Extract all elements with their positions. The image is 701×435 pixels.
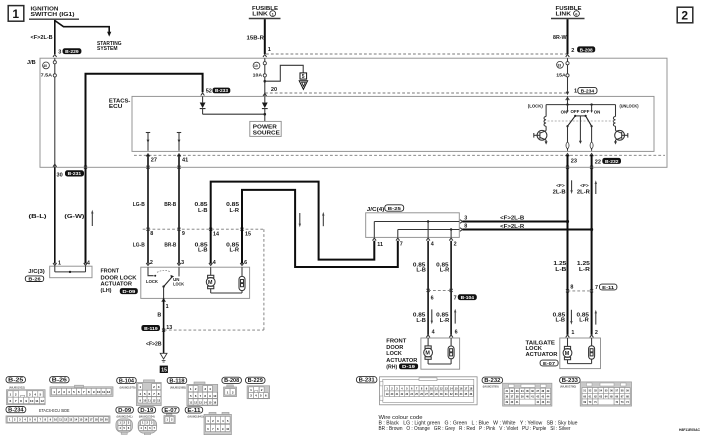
wire fuse40 to pin 30 (54, 77, 56, 167)
wire label <F>2L-B riser (553, 183, 566, 196)
svg-text:<F>2L-B: <F>2L-B (31, 35, 53, 41)
wire label 1.25 L-B (553, 261, 566, 273)
svg-text:19: 19 (100, 418, 103, 422)
svg-text:ON: ON (594, 109, 601, 114)
starting system label (97, 41, 122, 52)
svg-text:4: 4 (432, 330, 435, 336)
svg-text:11: 11 (35, 399, 39, 403)
svg-text:BR-B: BR-B (164, 243, 176, 249)
connector E-07 pinout (162, 407, 179, 414)
svg-text:B-233: B-233 (562, 378, 578, 384)
svg-text:L-B: L-B (556, 318, 566, 324)
svg-text:11: 11 (377, 242, 383, 248)
svg-text:2: 2 (15, 393, 17, 397)
wire branch to starting system (55, 21, 112, 37)
svg-text:14: 14 (213, 232, 219, 238)
svg-text:7: 7 (15, 399, 17, 403)
svg-text:B-25: B-25 (388, 206, 402, 211)
svg-text:4: 4 (68, 390, 70, 394)
svg-text:B-119: B-119 (144, 326, 158, 331)
svg-text:20: 20 (271, 87, 277, 93)
svg-text:LINK: LINK (252, 12, 267, 18)
svg-text:B-232: B-232 (484, 378, 500, 384)
svg-text:3: 3 (158, 385, 160, 389)
ignition switch (IG1) label (29, 7, 79, 20)
crossing marks on door connector row (147, 228, 244, 231)
wire label 0.85 L-B RH upper (413, 262, 426, 273)
svg-text:4: 4 (255, 394, 257, 398)
svg-text:8: 8 (88, 390, 90, 394)
dashed connector row top (between fusible link entries) (266, 53, 567, 55)
svg-text:15A: 15A (556, 72, 566, 77)
connector B-104 pinout (117, 377, 137, 384)
svg-text:4: 4 (87, 261, 90, 267)
svg-text:12: 12 (153, 398, 156, 402)
svg-text:OFF: OFF (571, 109, 580, 114)
svg-text:12: 12 (64, 418, 67, 422)
current arrow down beside 2L-B (570, 180, 572, 194)
svg-text:L-B: L-B (198, 208, 208, 214)
svg-text:1: 1 (227, 390, 229, 394)
svg-text:11: 11 (102, 390, 106, 394)
connector chevron FL6 at J/B top (566, 54, 570, 57)
tailgate actuator position switch capsule (589, 338, 595, 364)
lock relay coil (544, 105, 546, 131)
RH actuator pin 6 (449, 330, 457, 338)
LH actuator pin 2 (146, 260, 153, 266)
wire fuse10 down to pin 20 (264, 77, 266, 96)
wire label 1.25 L-R (577, 261, 590, 273)
wire label 0.85 L-B upper (195, 202, 208, 214)
current arrow up beside L-B riser (322, 212, 324, 226)
svg-text:13: 13 (157, 398, 160, 402)
svg-text:ACTUATOR: ACTUATOR (526, 352, 558, 358)
pin 1 connector B-234 (574, 87, 597, 94)
svg-text:E-07: E-07 (164, 408, 177, 414)
J/C(4) pin 4 (426, 238, 434, 248)
J/C(4) pin 11 (373, 238, 384, 248)
current arrow up RH right (454, 309, 456, 324)
svg-text:3: 3 (58, 50, 61, 56)
pin 22 connector B-232 (595, 158, 621, 165)
svg-text:(MU801952): (MU801952) (9, 386, 25, 390)
crossing marks at J/B bottom wires 23 22 (566, 166, 593, 169)
svg-text:(MU801985): (MU801985) (170, 385, 186, 389)
svg-text:B-26: B-26 (52, 378, 67, 384)
RH actuator internal bottom wire (428, 363, 451, 365)
front door lock actuator RH label (386, 339, 418, 371)
svg-text:41: 41 (182, 158, 188, 164)
dashed connector row mid (J/B to ETACS) (265, 92, 567, 94)
wire joining diodes (203, 113, 265, 115)
fuse 10 10A (253, 58, 267, 77)
connector B-231 pinout (356, 377, 377, 384)
svg-text:5: 5 (144, 392, 146, 396)
svg-text:4: 4 (213, 260, 216, 266)
current arrow up beside 2L-R (595, 180, 597, 194)
svg-text:1: 1 (268, 47, 271, 53)
dashed door connector row LH (143, 228, 264, 230)
wire label 0.85 L-R upper (226, 202, 239, 214)
unlock relay coil (613, 105, 615, 131)
ground symbol 15 (160, 353, 168, 373)
ETACS internal output arrow pin 27 (146, 133, 150, 157)
svg-text:L-R: L-R (579, 267, 590, 273)
svg-text:(MU802341): (MU802341) (117, 414, 133, 418)
pin 30 connector B-231 (57, 170, 85, 178)
svg-text:15: 15 (161, 367, 167, 373)
dashed door boundary vertical (263, 229, 265, 330)
pin 2 connector B-208 (571, 46, 595, 53)
svg-text:ETACS-ECU SIDE: ETACS-ECU SIDE (39, 408, 70, 413)
crossing mark G-W at J/B bottom (84, 166, 87, 169)
svg-text:1: 1 (12, 7, 19, 21)
svg-text:LINK: LINK (556, 12, 572, 18)
svg-text:6: 6 (78, 390, 80, 394)
fuse 40 7.5A (41, 58, 57, 77)
svg-text:(MU801840): (MU801840) (188, 414, 204, 418)
svg-text:11: 11 (148, 398, 151, 402)
svg-text:(LH): (LH) (101, 288, 112, 294)
svg-text:1: 1 (574, 89, 577, 95)
ON OFF OFF ON labels (561, 109, 601, 114)
wire label 0.85 L-B RH lower (413, 313, 426, 324)
svg-text:1: 1 (139, 385, 141, 389)
wire unlock contact to pin 22 (590, 126, 594, 156)
crossing marks E-11 (566, 289, 593, 292)
connector B-119 pin 13 (141, 325, 172, 331)
fusible link 1 label (249, 6, 281, 19)
svg-text:7: 7 (83, 390, 85, 394)
connector chevron FL1 at J/B top (263, 54, 267, 57)
svg-text:E-11: E-11 (187, 408, 200, 414)
wire label 0.85 L-R lower (226, 243, 239, 254)
svg-text:E-07: E-07 (543, 361, 556, 366)
crossing mark ground wire (162, 329, 165, 332)
wire lock contact to pin 23 (566, 126, 570, 156)
svg-text:7.5A: 7.5A (41, 72, 53, 77)
svg-text:B-208: B-208 (224, 378, 239, 384)
connector D-09 pinout (116, 407, 133, 414)
svg-text:B-232: B-232 (605, 159, 619, 164)
svg-text:(MU801979): (MU801979) (120, 385, 136, 389)
wire L-B thick zigzag J/C(4) pin 11 to LH actuator pin 4 (211, 182, 375, 264)
node L-R riser junction (590, 228, 593, 231)
crossing marks B-104 (427, 289, 453, 292)
junction connector J/C(4) B-25 label (367, 205, 404, 213)
svg-text:D-19: D-19 (140, 408, 153, 414)
lock relay transistor (534, 130, 548, 144)
svg-text:2: 2 (153, 385, 155, 389)
tailgate pin 1 (566, 330, 575, 338)
svg-text:2L-B: 2L-B (553, 190, 566, 196)
connector B-118 pinout (167, 377, 187, 384)
node diode junction (264, 113, 267, 116)
relay linkage dashed line (548, 120, 615, 122)
svg-text:POWER: POWER (253, 124, 277, 130)
junction block J/B box (40, 58, 667, 167)
svg-text:(G-W): (G-W) (64, 214, 84, 220)
current arrow down RH left (431, 309, 433, 324)
svg-text:B-104: B-104 (119, 378, 134, 384)
wire L-R thick zigzag J/C(4) pin 7 to LH actuator pin 6 (242, 190, 398, 267)
svg-text:14: 14 (74, 418, 77, 422)
svg-text:20: 20 (105, 418, 108, 422)
svg-text:7: 7 (454, 295, 457, 301)
svg-text:40: 40 (43, 64, 47, 68)
svg-text:LG-B: LG-B (133, 202, 145, 208)
unlock contact stub (590, 105, 592, 113)
sheet marker box 1 (8, 6, 24, 22)
J/C(4) pin 8 exit chevron (460, 228, 463, 232)
svg-text:15: 15 (79, 418, 82, 422)
svg-text:1.25: 1.25 (553, 261, 566, 267)
wire (G-W) thick: J/C(3) pin4 up and right to ETACS pin 52 (86, 74, 203, 264)
svg-text:(UNLOCK): (UNLOCK) (620, 103, 639, 108)
tailgate lock actuator box (560, 338, 601, 369)
svg-text:(B-L): (B-L) (29, 214, 47, 220)
svg-text:FRONT: FRONT (101, 268, 120, 274)
connector B-25 pinout (6, 377, 26, 384)
svg-text:1: 1 (166, 304, 169, 310)
svg-text:<F>2L-B: <F>2L-B (500, 216, 524, 222)
ETACS-ECU box (132, 96, 654, 151)
unlock relay transistor (614, 130, 628, 144)
svg-text:7: 7 (400, 242, 403, 248)
tailgate lock actuator label (526, 340, 559, 366)
svg-text:7: 7 (153, 392, 155, 396)
wire <F>2B to ground (163, 330, 165, 353)
svg-text:8: 8 (570, 285, 573, 291)
LH actuator pin 3 (177, 260, 184, 266)
svg-text:<F>2L-R: <F>2L-R (500, 224, 524, 230)
svg-text:12: 12 (107, 390, 111, 394)
wire label 0.85 L-R RH upper (436, 262, 449, 273)
junction connector J/C(3) B-26 (25, 266, 92, 281)
front door lock actuator LH box (141, 267, 250, 298)
svg-text:10: 10 (30, 399, 34, 403)
tailgate actuator motor (563, 338, 572, 364)
svg-text:1: 1 (250, 388, 252, 392)
front door lock actuator RH box (421, 338, 460, 369)
svg-text:D-19: D-19 (402, 364, 416, 369)
wire label 0.85 L-B lower (195, 243, 208, 254)
svg-text:SOURCE: SOURCE (253, 131, 281, 137)
svg-text:L-B: L-B (416, 318, 426, 324)
svg-text:10: 10 (97, 390, 101, 394)
svg-text:ECU: ECU (109, 104, 123, 110)
svg-text:2: 2 (150, 260, 153, 266)
svg-text:3: 3 (204, 387, 206, 391)
svg-text:H8F11E05AC: H8F11E05AC (679, 427, 700, 432)
svg-text:<F>: <F> (580, 183, 589, 189)
svg-text:3: 3 (181, 260, 184, 266)
current arrow up beside G-W wire (91, 210, 93, 226)
LH actuator pin 1 (162, 299, 169, 310)
svg-text:1: 1 (58, 261, 61, 267)
svg-text:10: 10 (143, 398, 146, 402)
svg-text:B-229: B-229 (65, 49, 79, 54)
svg-text:6: 6 (455, 330, 458, 336)
current arrow down tailgate left (570, 310, 572, 325)
svg-text:10: 10 (254, 64, 258, 68)
svg-text:SYSTEM: SYSTEM (97, 46, 118, 52)
node L-B riser junction (566, 220, 569, 223)
svg-text:1: 1 (53, 390, 55, 394)
pin 3 connector B-229 (58, 48, 81, 55)
svg-text:B-208: B-208 (580, 47, 594, 52)
connector chevron pin 30 (53, 164, 57, 167)
pin 52 connector B-233 (206, 88, 231, 95)
svg-text:L-R: L-R (230, 248, 240, 254)
diode at pin 20 (262, 96, 268, 121)
svg-text:B-231: B-231 (359, 378, 375, 384)
lock contact stub (566, 105, 568, 113)
svg-text:3: 3 (29, 393, 31, 397)
connector chevron pin 20 (263, 93, 267, 96)
svg-text:5: 5 (73, 390, 75, 394)
svg-text:6: 6 (265, 394, 267, 398)
svg-text:2: 2 (571, 48, 574, 54)
svg-text:30: 30 (57, 172, 63, 178)
diode at pin 52 (200, 96, 206, 114)
LH lock switch (146, 267, 185, 298)
svg-text:L-B: L-B (416, 268, 426, 274)
J/C(4) internal bus pin 3 (374, 220, 459, 237)
svg-text:6: 6 (149, 392, 151, 396)
J/C(4) pin 7 (396, 238, 403, 248)
svg-text:ACTUATOR: ACTUATOR (386, 358, 417, 364)
wire label <F>2L-R riser (577, 183, 590, 196)
wire 23 L-B riser to tailgate pin 1 (567, 155, 569, 335)
svg-text:8: 8 (150, 231, 153, 237)
svg-text:SWITCH (IG1): SWITCH (IG1) (31, 12, 75, 18)
svg-text:2: 2 (232, 390, 234, 394)
svg-text:2: 2 (595, 330, 598, 336)
fusible link 6 label (551, 6, 585, 19)
svg-text:B-234: B-234 (8, 408, 24, 414)
wire label 0.85 L-B tailgate (553, 312, 566, 323)
sheet marker box 2 (677, 7, 693, 23)
svg-text:2L-R: 2L-R (577, 190, 590, 196)
svg-text:2: 2 (261, 388, 263, 392)
svg-text:L-R: L-R (440, 318, 450, 324)
svg-text:B-229: B-229 (248, 378, 263, 384)
crossing marks at J/B bottom wires 27 41 (147, 166, 181, 169)
svg-text:2: 2 (58, 390, 60, 394)
svg-text:J/C(4): J/C(4) (367, 207, 385, 213)
wire 15B-R fusible link 1 (264, 19, 266, 54)
wire 0.85 L-B J/C(4) pin 4 to RH actuator pin 4 (427, 241, 429, 335)
connector B-232 pinout (482, 377, 503, 384)
svg-text:<F>: <F> (556, 183, 565, 189)
svg-text:FRONT: FRONT (386, 339, 407, 345)
relay supply rail (546, 104, 615, 106)
svg-text:17: 17 (90, 418, 93, 422)
wire fuse33 down to pin 1 B-234 (567, 77, 569, 92)
J/C(3) pin 1 (53, 261, 61, 267)
svg-text:27: 27 (151, 158, 157, 164)
tailgate actuator internal bottom wire (568, 363, 592, 365)
svg-text:(MU802334): (MU802334) (139, 414, 155, 418)
ETACS-ECU label (109, 98, 131, 110)
J/C(4) pin 2 (449, 238, 456, 248)
svg-text:4: 4 (431, 242, 434, 248)
connector D-19 pinout (138, 407, 156, 414)
svg-text:4: 4 (34, 393, 36, 397)
svg-text:D-09: D-09 (122, 289, 136, 294)
node rail left contact (566, 103, 568, 105)
svg-text:10: 10 (54, 418, 57, 422)
svg-text:L-B: L-B (198, 248, 208, 254)
svg-text:13: 13 (69, 418, 72, 422)
LH actuator motor (206, 267, 215, 293)
svg-text:D-09: D-09 (118, 408, 131, 414)
svg-text:6: 6 (10, 399, 12, 403)
svg-text:ACTUATOR: ACTUATOR (101, 282, 133, 288)
svg-text:M: M (208, 280, 213, 286)
svg-text:M: M (425, 351, 430, 357)
wire thick J/C(4) pin 3 to tailgate L-B riser (463, 221, 568, 223)
svg-text:1: 1 (190, 387, 192, 391)
connector B-229 pinout (246, 377, 266, 384)
J/C(4) pin 3 exit chevron (460, 220, 463, 224)
svg-text:23: 23 (571, 159, 577, 165)
svg-text:15B-R: 15B-R (247, 36, 265, 42)
node junction below fuse 10 (264, 80, 267, 83)
junction connector J/C(4) box (366, 213, 460, 238)
LH actuator pin 6 (240, 260, 247, 266)
connector B-234 pinout ETACS-ECU side (6, 407, 26, 414)
wire LG-B from pin 27 to LH actuator pin 2 (147, 155, 149, 264)
svg-text:B: B (157, 313, 161, 319)
svg-text:B-25: B-25 (8, 378, 23, 384)
dashed connector row B-119 (164, 329, 264, 331)
svg-text:52: 52 (206, 88, 212, 94)
svg-text:DOOR: DOOR (386, 345, 403, 351)
ground wire B from LH actuator (163, 298, 165, 330)
RH actuator position switch capsule (448, 338, 454, 364)
power source block (250, 121, 281, 136)
svg-text:4: 4 (209, 387, 211, 391)
svg-text:LOCK: LOCK (146, 279, 159, 284)
svg-text:9: 9 (25, 399, 27, 403)
svg-text:M: M (565, 351, 570, 357)
svg-text:L-R: L-R (230, 208, 240, 214)
svg-text:BR-B: BR-B (164, 202, 176, 208)
svg-text:9: 9 (182, 231, 185, 237)
LH actuator pin 4 (209, 260, 216, 266)
svg-text:BR : Brown O : Orange GR :: BR : Brown O : Orange GR : Grey R : Red … (379, 426, 571, 432)
wire (B-L) pin30 to J/C(3) pin 1 (54, 167, 56, 263)
svg-text:12: 12 (40, 399, 44, 403)
svg-text:10: 10 (226, 427, 229, 431)
dashed connector row B-104 (428, 289, 451, 291)
dashed connector row E-11 (568, 290, 592, 292)
LH actuator position switch capsule (239, 267, 245, 293)
svg-text:1: 1 (10, 393, 12, 397)
connector B-233 pinout (560, 377, 581, 384)
svg-text:J/B: J/B (27, 60, 36, 66)
relay contact arms (566, 115, 592, 127)
connector E-11 pinout (185, 407, 203, 414)
svg-text:(LOCK): (LOCK) (528, 103, 544, 108)
svg-text:8: 8 (20, 399, 22, 403)
pointer symbol to diagram 5 (299, 73, 307, 90)
svg-text:5: 5 (302, 74, 305, 80)
wire label 0.85 L-R RH lower (436, 313, 449, 324)
svg-text:3: 3 (63, 390, 65, 394)
